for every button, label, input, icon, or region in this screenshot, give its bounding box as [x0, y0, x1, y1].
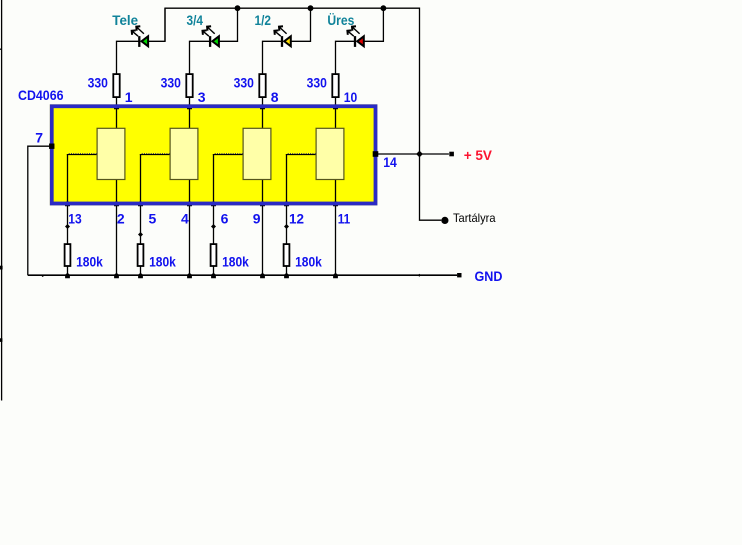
- node: clipped junction y267 on left rail: [0, 266, 3, 270]
- node: tiny nub on GND at x42.6: [42, 275, 44, 277]
- node: pin 8 at chip top edge: [260, 104, 265, 110]
- svg-text:11: 11: [338, 210, 351, 226]
- svg-text:12: 12: [289, 210, 304, 226]
- wire: LED D3 anode to +5V bus riser: [290, 8, 310, 41]
- node: sensor tap on pin 12 wire: [284, 224, 289, 229]
- LED D4 (Üres) triangle: [357, 36, 364, 46]
- svg-text:CD4066: CD4066: [18, 87, 64, 103]
- wire: control pin 12 / 180k pulldown: [286, 154, 288, 275]
- wire: top +5V bus: [165, 8, 441, 220]
- resistor R2 330: [186, 74, 192, 97]
- svg-text:+ 5V: + 5V: [464, 147, 493, 163]
- svg-text:5: 5: [149, 210, 157, 226]
- node: pin 11 to GND: [333, 273, 338, 279]
- wire: LED D4 anode to +5V bus riser: [363, 8, 383, 41]
- node: pin 1 at chip top edge: [114, 104, 119, 110]
- node: small junction on GND under rail: [418, 274, 421, 277]
- node: +5V terminal: [449, 152, 454, 157]
- node: pin 7 pad on chip edge: [49, 144, 54, 149]
- wire: control pin 6 / 180k pulldown: [213, 154, 215, 275]
- svg-text:330: 330: [88, 75, 108, 91]
- wire: pin 10 into chip: [335, 98, 337, 129]
- node: Tartályra terminal: [441, 217, 448, 224]
- svg-text:Üres: Üres: [327, 12, 354, 28]
- svg-text:1: 1: [125, 89, 133, 105]
- wire: 330R R2 top to LED D2 cathode: [190, 41, 211, 73]
- resistor R1 330: [113, 74, 119, 97]
- wire: LED D1 anode to +5V bus riser: [148, 8, 165, 41]
- wire: pin 1 into chip: [116, 98, 118, 129]
- wire: switch 2 output pin 4 to GND: [189, 179, 191, 276]
- svg-text:Tele: Tele: [112, 12, 138, 28]
- node: sensor tap on pin 5 wire: [138, 232, 143, 237]
- wire: pin 8 into chip: [262, 98, 264, 129]
- switch element S3 inside CD4066: [243, 128, 271, 179]
- svg-text:330: 330: [161, 75, 181, 91]
- LED D4 cathode bar: [354, 36, 356, 47]
- node: GND terminal: [457, 273, 461, 277]
- LED D2 emission arrows: [203, 26, 215, 36]
- resistor R5 180k: [65, 244, 71, 266]
- node: +5V rail junction: [416, 151, 423, 158]
- node: 180k R8 to GND: [284, 273, 289, 279]
- wire: 330R R1 top to LED D1 cathode: [117, 41, 140, 73]
- wire: switch 4 output pin 11 to GND: [335, 179, 337, 276]
- node: pin 11 at chip bottom edge: [333, 200, 338, 206]
- svg-text:3: 3: [198, 89, 206, 105]
- resistor R8 180k: [284, 244, 290, 266]
- node: pin 12 at chip bottom edge: [284, 200, 289, 206]
- LED D3 (1/2) triangle: [284, 36, 291, 46]
- node: pin 9 at chip bottom edge: [260, 200, 265, 206]
- svg-text:330: 330: [234, 75, 254, 91]
- wire: switch 3 output pin 9 to GND: [262, 179, 264, 276]
- svg-text:180k: 180k: [295, 253, 322, 269]
- LED D2 cathode bar: [209, 36, 211, 47]
- svg-text:Tartályra: Tartályra: [453, 211, 496, 225]
- LED D1 emission arrows: [132, 26, 144, 36]
- svg-text:180k: 180k: [76, 253, 103, 269]
- node: pin 9 to GND: [260, 273, 265, 279]
- wire: control pin 13 / 180k pulldown: [67, 154, 69, 275]
- node: pin 4 at chip bottom edge: [187, 200, 192, 206]
- LED D2 (3/4) triangle: [212, 36, 219, 46]
- wire: pin 7 to GND rail: [28, 146, 52, 275]
- svg-text:2: 2: [117, 210, 125, 226]
- wire: LED D2 anode to +5V bus riser: [219, 8, 238, 41]
- svg-text:4: 4: [181, 210, 189, 226]
- node: pin 2 to GND: [114, 273, 119, 279]
- node: pin 6 at chip bottom edge: [211, 200, 216, 206]
- svg-text:8: 8: [271, 89, 279, 105]
- svg-text:180k: 180k: [149, 253, 176, 269]
- resistor R7 180k: [211, 244, 217, 266]
- wire: GND rail: [28, 274, 457, 276]
- svg-text:GND: GND: [475, 268, 503, 284]
- node: pin 3 at chip top edge: [187, 104, 192, 110]
- node: bus junction above LED D2: [235, 5, 241, 11]
- LED D1 cathode bar: [138, 36, 140, 47]
- wire: left clipped vertical rail: [1, 0, 3, 401]
- switch element S4 inside CD4066: [316, 128, 344, 179]
- node: bus junction above LED D3: [308, 5, 314, 11]
- svg-text:13: 13: [68, 210, 82, 226]
- node: 180k R6 to GND: [138, 273, 143, 279]
- node: sensor tap on pin 13 wire: [65, 224, 70, 229]
- resistor R4 330: [332, 74, 338, 97]
- op-amp U1: CD4066 body border: [52, 106, 376, 203]
- svg-text:10: 10: [344, 89, 358, 105]
- resistor R3 330: [259, 74, 265, 97]
- wire: clipped stub y49: [0, 48, 2, 50]
- node: bus junction above LED D4: [381, 5, 387, 11]
- svg-text:7: 7: [35, 130, 43, 146]
- svg-text:14: 14: [383, 154, 397, 170]
- svg-text:3/4: 3/4: [187, 12, 204, 28]
- node: pin 4 to GND: [187, 273, 192, 279]
- node: clipped junction y340 on left rail: [0, 338, 2, 342]
- node: sensor tap on pin 6 wire: [211, 224, 216, 229]
- node: pin 14 pad on chip edge: [373, 151, 379, 157]
- node: pin 10 at chip top edge: [333, 104, 338, 110]
- node: 180k R5 to GND: [65, 273, 70, 279]
- svg-text:6: 6: [221, 210, 229, 226]
- wire: switch 1 output pin 2 to GND: [116, 179, 118, 276]
- svg-text:1/2: 1/2: [255, 12, 272, 28]
- LED D3 cathode bar: [281, 36, 283, 47]
- svg-text:180k: 180k: [222, 253, 249, 269]
- LED D4 emission arrows: [347, 26, 359, 36]
- resistor R6 180k: [138, 244, 144, 266]
- node: pin 2 at chip bottom edge: [114, 200, 119, 206]
- wire: pin 14 to +5V: [376, 153, 449, 155]
- switch element S1 inside CD4066: [97, 128, 125, 179]
- wire: 330R R4 top to LED D4 cathode: [336, 41, 356, 73]
- LED D3 emission arrows: [274, 26, 286, 36]
- wire: pin 3 into chip: [189, 98, 191, 129]
- switch element S2 inside CD4066: [170, 128, 198, 179]
- op-amp U1: CD4066 quad bilateral switch body: [50, 104, 378, 205]
- wire: control pin 5 / 180k pulldown: [140, 154, 142, 275]
- node: 180k R7 to GND: [211, 273, 216, 279]
- svg-text:330: 330: [307, 75, 327, 91]
- wire: 330R R3 top to LED D3 cathode: [263, 41, 283, 73]
- node: pin 5 at chip bottom edge: [138, 200, 143, 206]
- svg-text:9: 9: [253, 210, 261, 226]
- LED D1 (Tele) triangle: [142, 36, 149, 46]
- node: pin 13 at chip bottom edge: [65, 200, 70, 206]
